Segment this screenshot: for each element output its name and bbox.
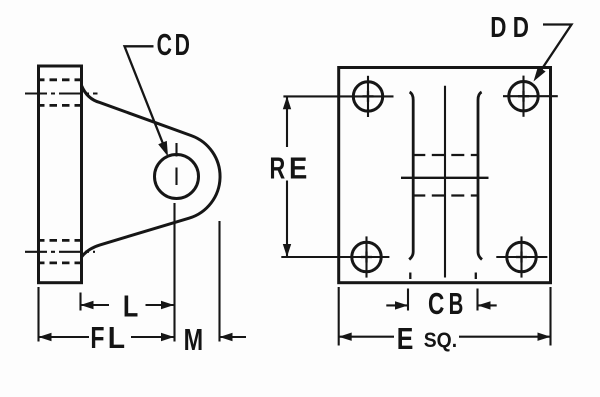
svg-text:R: R [270, 150, 286, 185]
svg-text:D: D [175, 27, 190, 62]
svg-text:L: L [108, 320, 125, 355]
svg-text:D: D [490, 12, 506, 44]
svg-text:F: F [90, 320, 104, 355]
svg-text:E: E [397, 321, 414, 356]
svg-text:SQ.: SQ. [424, 329, 457, 352]
svg-text:C: C [157, 27, 172, 62]
svg-text:B: B [449, 286, 464, 321]
svg-text:C: C [428, 286, 444, 321]
svg-text:L: L [123, 288, 138, 323]
svg-text:E: E [289, 150, 307, 185]
svg-text:M: M [184, 322, 204, 357]
svg-text:D: D [513, 12, 529, 44]
